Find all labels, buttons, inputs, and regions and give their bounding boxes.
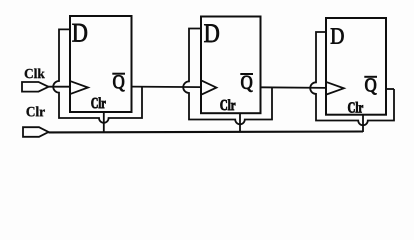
wire Clr feeder to U2 Clr pin <box>239 113 241 132</box>
U3 Qbar overline <box>364 76 377 78</box>
U2 pin label Clr <box>220 99 235 110</box>
wire Clr bus <box>49 130 364 133</box>
U2 pin label D <box>204 24 219 42</box>
U2 clock input triangle <box>202 81 217 95</box>
wire Clr feeder to U1 Clr pin <box>103 112 105 132</box>
U3 pin label D <box>331 28 344 43</box>
wire U3 Qbar output to feedback drop <box>386 88 394 90</box>
wire Clr feeder to U3 Clr pin <box>362 115 364 132</box>
U3 feedback wire Qbar to D <box>310 32 394 125</box>
wire U1 Qbar output to U2 clock <box>132 86 202 89</box>
U1 feedback wire Qbar to D (left vertical with hop over Clk wire, bottom run with hop over Clr feeder) <box>53 29 142 122</box>
U1 pin label Clr <box>91 97 105 108</box>
U1 clock input triangle <box>71 81 88 94</box>
U1 pin label Qbar <box>113 75 124 91</box>
label Clk <box>25 69 45 79</box>
U2 pin label Qbar <box>241 76 252 92</box>
U3 clock input triangle <box>327 82 344 94</box>
node Clk input connector <box>22 82 49 92</box>
D flip-flop U3 body <box>326 18 386 115</box>
D flip-flop U1 body <box>70 16 132 112</box>
U2 Qbar overline <box>240 73 253 75</box>
D flip-flop U2 body <box>201 17 261 114</box>
U1 pin label D <box>72 24 87 42</box>
U2 feedback wire Qbar to D <box>183 29 272 125</box>
label Clr <box>27 106 45 116</box>
wire U2 Qbar output to U3 clock <box>261 86 327 89</box>
node Clr input connector <box>23 127 49 137</box>
U3 pin label Clr <box>348 102 363 113</box>
U1 Qbar overline <box>112 73 125 75</box>
wire Clk to U1 clock <box>49 86 71 88</box>
U3 pin label Qbar <box>365 79 376 95</box>
